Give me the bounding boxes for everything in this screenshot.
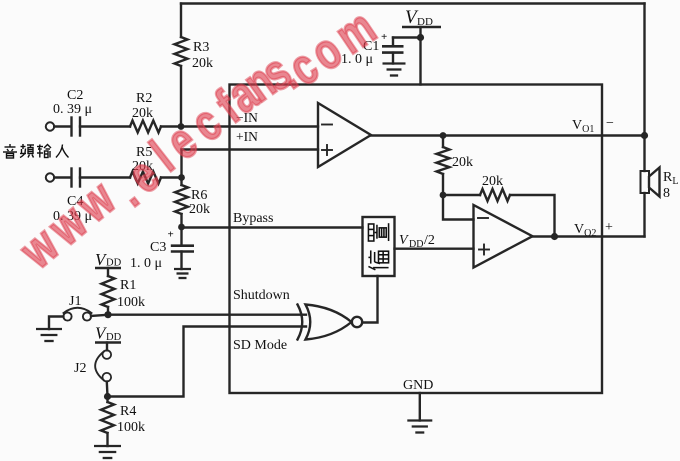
svg-text:100k: 100k — [117, 420, 145, 435]
svg-text:+: + — [605, 220, 613, 235]
wire VDD node to IC box — [419, 38, 421, 85]
wire R5 to +IN node — [161, 176, 182, 178]
capacitor C2 — [53, 88, 92, 136]
IC package box — [230, 85, 603, 394]
label audio input (Chinese) — [3, 144, 69, 158]
wire input1 to C2 — [54, 125, 71, 127]
svg-text:R3: R3 — [193, 40, 209, 55]
wire SD Mode — [108, 327, 306, 397]
ground R4 — [94, 446, 121, 458]
node Bypass junction — [178, 224, 185, 231]
wire top supply rail — [181, 2, 645, 4]
label VO1 — [572, 116, 614, 135]
svg-text:20k: 20k — [132, 106, 153, 121]
resistor R1 — [102, 276, 146, 310]
resistor 20k feedback-h — [480, 174, 510, 201]
wire U2 output VO2 — [533, 235, 645, 237]
svg-text:C2: C2 — [67, 88, 83, 103]
wire R1 to J1 node — [107, 307, 109, 315]
resistor 20k feedback-top — [437, 136, 474, 174]
node -IN junction — [178, 123, 185, 130]
wire right rail speaker to VO2 — [643, 193, 645, 237]
wire C4 to R5 — [80, 176, 130, 178]
wire +IN to op-amp U1 — [182, 129, 319, 150]
label GND — [403, 378, 433, 393]
wire 20k-h to U2 output — [510, 195, 555, 237]
svg-text:+: + — [168, 229, 174, 241]
svg-text:DD: DD — [409, 239, 423, 250]
bias block (pian zhi) — [363, 217, 395, 276]
ground below C1 — [383, 64, 406, 76]
svg-text:20k: 20k — [189, 202, 210, 217]
resistor R4 — [101, 397, 145, 436]
svg-text:Bypass: Bypass — [233, 211, 273, 226]
resistor R2 — [130, 91, 161, 133]
svg-text:/2: /2 — [424, 233, 435, 248]
wire R6 to bypass node — [180, 214, 182, 227]
svg-text:J2: J2 — [74, 361, 86, 376]
ground J1 — [36, 329, 62, 341]
wire Shutdown — [108, 288, 306, 315]
node J2 junction — [104, 393, 111, 400]
capacitor C4 — [53, 169, 92, 225]
wire node to 20k-h — [443, 194, 480, 196]
input terminal 1 — [46, 122, 54, 130]
svg-text:20k: 20k — [192, 56, 213, 71]
svg-text:20k: 20k — [482, 174, 503, 189]
node feedback tap — [440, 132, 447, 139]
jumper J2 — [74, 350, 111, 381]
svg-text:R1: R1 — [120, 278, 136, 293]
svg-text:100k: 100k — [117, 295, 145, 310]
node VDD junction — [417, 34, 424, 41]
svg-text:R4: R4 — [120, 404, 136, 419]
ground GND pin — [407, 421, 432, 433]
capacitor C3 — [130, 227, 194, 271]
ground below C3 — [174, 269, 191, 278]
svg-text:−: − — [606, 116, 614, 131]
node J1 junction — [104, 311, 111, 318]
svg-text:20k: 20k — [452, 155, 473, 170]
wire J2 to node — [106, 382, 109, 397]
svg-text:R2: R2 — [136, 91, 152, 106]
wire top rail to R3 — [180, 4, 182, 38]
svg-text:C3: C3 — [150, 240, 166, 255]
wire right rail VO1 node to speaker — [643, 136, 645, 172]
resistor R5 — [130, 145, 161, 184]
jumper J1 — [63, 294, 104, 321]
wire input2 to C4 — [54, 176, 71, 178]
wire U1 output VO1 — [371, 134, 645, 136]
wire +IN riser — [180, 150, 182, 178]
svg-text:Shutdown: Shutdown — [233, 288, 290, 303]
svg-text:SD Mode: SD Mode — [233, 338, 287, 353]
wire R4 to ground — [106, 433, 108, 446]
watermark — [8, 0, 385, 280]
label VO2 — [574, 220, 613, 239]
wire node to U2 minus input — [443, 195, 474, 220]
svg-text:1. 0 μ: 1. 0 μ — [130, 256, 162, 271]
svg-text:J1: J1 — [69, 294, 81, 309]
node VO1-rail junction — [641, 132, 648, 139]
power VDD J2 — [95, 324, 122, 351]
svg-text:V: V — [399, 233, 409, 248]
node U2 output junction — [551, 233, 558, 240]
power VDD R1 — [95, 250, 122, 276]
op-amp U2 — [474, 205, 533, 268]
power VDD top — [402, 7, 441, 37]
wire R2 to -IN node — [161, 125, 181, 127]
capacitor C1 — [341, 31, 404, 67]
wire bias block to XNOR output — [363, 276, 378, 323]
wire C2 to R2 — [80, 125, 130, 127]
wire GND pin — [419, 393, 421, 421]
svg-text:R6: R6 — [191, 188, 207, 203]
wire -IN to op-amp U1 — [181, 110, 318, 127]
node inverting junction — [440, 192, 447, 199]
wire J1 to ground — [49, 317, 63, 330]
wire Bypass to bias block — [182, 211, 363, 228]
svg-text:0. 39 μ: 0. 39 μ — [53, 102, 92, 117]
wire right rail upper (top to VO1 node) — [643, 4, 645, 136]
resistor R6 — [175, 178, 210, 218]
node +IN junction — [178, 174, 185, 181]
label VDD/2 — [399, 233, 435, 250]
wire R3 to -IN node — [180, 66, 182, 127]
speaker RL — [641, 168, 679, 202]
svg-text:8: 8 — [663, 186, 670, 201]
XNOR gate U3 — [298, 305, 363, 340]
input terminal 2 — [46, 173, 54, 181]
wire 20k to node — [442, 174, 444, 195]
wire bias output VDD/2 — [395, 247, 474, 249]
op-amp U1 — [318, 103, 371, 167]
resistor R3 — [175, 37, 214, 71]
svg-text:GND: GND — [403, 378, 433, 393]
wire VDD node to C1 — [393, 38, 421, 46]
